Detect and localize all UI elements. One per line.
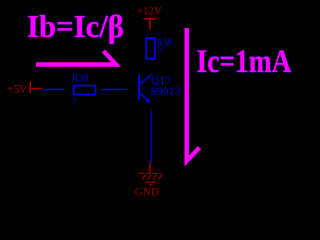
transistor Q17 emitter lead [139,92,146,99]
power bar symbol +12V [143,19,156,30]
svg-text:+5V: +5V [7,83,28,95]
svg-text:S9013: S9013 [150,86,180,98]
wire R39 to base [102,89,128,91]
annotation arrow Ic (pointing down) [187,28,200,161]
svg-text:R39: R39 [72,73,89,83]
svg-text:Q17: Q17 [151,73,171,87]
wire emitter down [150,111,152,163]
transistor Q17 emitter arrowhead [145,98,150,103]
resistor R38 body [146,38,155,59]
ground stem [149,162,151,173]
annotation arrow Ib (pointing right) [36,51,116,65]
wire +5V to R39 [42,89,65,91]
transistor Q17 collector lead [139,75,151,84]
svg-text:?: ? [157,47,162,58]
port bar +5V [29,82,31,94]
port pin +5V [31,88,42,90]
svg-text:Ib=Ic/β: Ib=Ic/β [27,8,124,44]
svg-text:?: ? [72,96,77,107]
ground symbol [139,173,162,185]
svg-text:Ic=1mA: Ic=1mA [197,44,292,80]
resistor R39 body [74,86,96,95]
svg-text:GND: GND [135,185,160,199]
svg-text:+12V: +12V [137,5,163,17]
transistor Q17 base bar [138,75,140,101]
